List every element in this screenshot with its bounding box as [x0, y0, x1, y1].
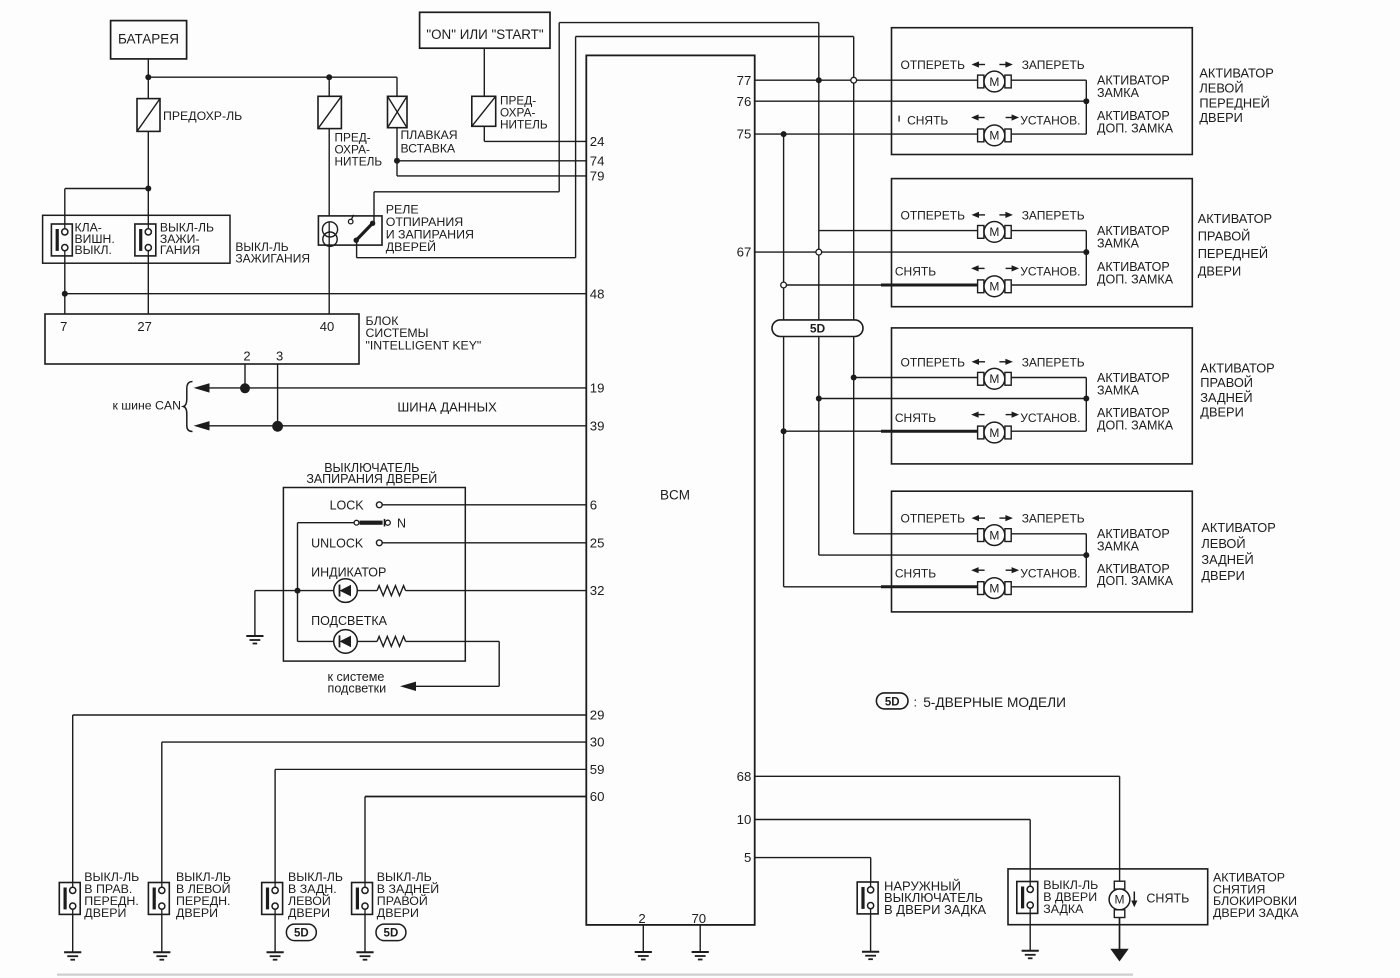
- svg-text:70: 70: [691, 911, 706, 926]
- svg-text:ЗАМКА: ЗАМКА: [1097, 540, 1140, 554]
- ground BCM pin70: [692, 951, 709, 953]
- svg-text:АКТИВАТОР: АКТИВАТОР: [1198, 211, 1272, 226]
- resistor indicator: [377, 586, 406, 596]
- svg-text:ДОП. ЗАМКА: ДОП. ЗАМКА: [1097, 574, 1174, 588]
- svg-text:ИНДИКАТОР: ИНДИКАТОР: [311, 565, 386, 579]
- wire motor1 right + return: [1011, 533, 1086, 535]
- ignition ON-START source: [420, 12, 550, 48]
- wire row pin30: [162, 741, 587, 743]
- svg-text:40: 40: [320, 319, 334, 334]
- ground right front door switch: [64, 951, 81, 953]
- svg-text:ДВЕРИ: ДВЕРИ: [1198, 264, 1241, 279]
- svg-text:67: 67: [737, 245, 752, 260]
- node box3 return tap: [816, 396, 822, 402]
- svg-text:В ДВЕРИ ЗАДКА: В ДВЕРИ ЗАДКА: [884, 902, 986, 917]
- wire box4 superlock row: [784, 586, 881, 588]
- node pin74 tap: [394, 158, 400, 164]
- fusible link: [388, 96, 408, 127]
- svg-text:СНЯТЬ: СНЯТЬ: [895, 265, 936, 279]
- svg-text:ДВЕРИ: ДВЕРИ: [176, 906, 218, 920]
- crossing hop box2 superlock: [781, 282, 787, 288]
- wire unlock feed vertical: [853, 37, 855, 534]
- svg-text:19: 19: [590, 381, 605, 396]
- svg-text:3: 3: [276, 349, 283, 364]
- svg-text:79: 79: [590, 169, 605, 184]
- svg-text:ЗАПЕРЕТЬ: ЗАПЕРЕТЬ: [1022, 355, 1085, 369]
- wire illumination row: [298, 640, 334, 642]
- wire box3 lock row: [854, 377, 978, 379]
- svg-text:6: 6: [590, 497, 597, 512]
- svg-text:68: 68: [737, 769, 752, 784]
- svg-text:ЗАПИРАНИЯ ДВЕРЕЙ: ЗАПИРАНИЯ ДВЕРЕЙ: [306, 471, 437, 486]
- svg-text:ЗАДНЕЙ: ЗАДНЕЙ: [1200, 390, 1252, 405]
- marker 5D rear left: [286, 924, 316, 941]
- wire box2 superlock row: [784, 284, 881, 286]
- wire motor1 right + return: [1011, 230, 1086, 232]
- wire relay common loop: [356, 241, 358, 258]
- wire indicator to pin32: [406, 590, 587, 592]
- ground rear right door switch: [356, 951, 373, 953]
- svg-text:30: 30: [590, 735, 605, 750]
- wire fuse F2 stems: [328, 77, 330, 96]
- arrow unlock direction: [1133, 892, 1135, 902]
- crossing hop 77: [851, 77, 857, 83]
- svg-text:ЗАЖИГАНИЯ: ЗАЖИГАНИЯ: [235, 252, 310, 266]
- svg-text:M: M: [1115, 893, 1125, 907]
- svg-text:ПОДСВЕТКА: ПОДСВЕТКА: [311, 614, 388, 628]
- wire pin2 stem: [244, 364, 246, 388]
- switch neutral element: [354, 520, 359, 525]
- ground left front door switch: [153, 951, 170, 953]
- svg-text:УСТАНОВ.: УСТАНОВ.: [1020, 114, 1080, 128]
- svg-text:UNLOCK: UNLOCK: [311, 536, 364, 550]
- svg-text:УСТАНОВ.: УСТАНОВ.: [1020, 566, 1080, 580]
- wire box4 lock row: [854, 533, 978, 535]
- svg-text:ГАНИЯ: ГАНИЯ: [160, 243, 200, 257]
- svg-text:5: 5: [744, 850, 751, 865]
- wire data bus row 19: [199, 387, 586, 389]
- wire battery stem: [147, 59, 149, 99]
- wire row pin77: [755, 79, 978, 81]
- wire pin3 stem: [277, 364, 279, 426]
- ground door lock switch: [246, 635, 263, 637]
- svg-text:77: 77: [737, 73, 752, 88]
- wire row pin68: [755, 775, 1120, 777]
- fuse F2: [318, 96, 341, 128]
- fuse F3: [472, 96, 496, 126]
- svg-text:АКТИВАТОР: АКТИВАТОР: [1200, 361, 1274, 376]
- resistor illumination: [377, 636, 406, 646]
- svg-text:5-ДВЕРНЫЕ МОДЕЛИ: 5-ДВЕРНЫЕ МОДЕЛИ: [923, 695, 1066, 710]
- wire fuse F3 to pin24: [483, 126, 485, 141]
- actuator right rear door: [892, 328, 1193, 464]
- wire row pin79: [397, 175, 586, 177]
- wire row pin10: [755, 819, 1030, 821]
- node 75 tap: [781, 131, 787, 137]
- wire row pin60: [365, 796, 586, 798]
- svg-text:M: M: [989, 528, 999, 542]
- wire to ground: [254, 591, 256, 636]
- switch key cancel: [51, 224, 72, 256]
- node fuse2 tap: [326, 74, 332, 80]
- svg-text:ДВЕРИ: ДВЕРИ: [288, 906, 330, 920]
- fuse F1: [137, 99, 160, 132]
- wire switch common: [298, 522, 355, 524]
- switch rear right door: [352, 883, 373, 915]
- svg-text:N: N: [397, 516, 406, 530]
- wire LOCK to pin6: [382, 504, 586, 506]
- wire coil to pin40: [328, 245, 330, 314]
- svg-text:25: 25: [590, 535, 605, 550]
- svg-text:ДВЕРИ: ДВЕРИ: [1201, 568, 1244, 583]
- node battery junction: [145, 74, 151, 80]
- svg-text:ПЕРЕДНЕЙ: ПЕРЕДНЕЙ: [1198, 246, 1268, 261]
- LED illumination: [334, 630, 358, 654]
- svg-text:подсветки: подсветки: [328, 682, 387, 696]
- svg-text:ДВЕРИ: ДВЕРИ: [1200, 404, 1243, 419]
- svg-text:ПЛАВКАЯ: ПЛАВКАЯ: [401, 128, 458, 142]
- scan shadow: [57, 973, 1133, 975]
- ground BCM pin2: [635, 951, 652, 953]
- CAN brace: [183, 382, 192, 432]
- svg-text:60: 60: [590, 789, 605, 804]
- node indicator branch: [295, 588, 301, 594]
- wire row pin29: [73, 714, 587, 716]
- ground outside switch: [862, 951, 879, 953]
- svg-text:ОТПЕРЕТЬ: ОТПЕРЕТЬ: [901, 355, 966, 369]
- motor super lock actuator: [978, 426, 984, 439]
- wire fuse F1 to switches: [147, 131, 149, 215]
- actuator right front door: [892, 179, 1193, 307]
- relay door lock-unlock: [318, 216, 382, 245]
- wire indicator row: [255, 590, 334, 592]
- svg-text:ВСТАВКА: ВСТАВКА: [401, 141, 457, 155]
- svg-text:УСТАНОВ.: УСТАНОВ.: [1020, 265, 1080, 279]
- svg-text:ЗАПЕРЕТЬ: ЗАПЕРЕТЬ: [1022, 512, 1085, 526]
- switch left front door: [148, 883, 169, 915]
- svg-text:ЛЕВОЙ: ЛЕВОЙ: [1199, 81, 1243, 96]
- wire row pin67: [755, 251, 1087, 253]
- ignition switch block: [43, 215, 230, 263]
- svg-text:48: 48: [590, 286, 605, 301]
- motor lock actuator: [978, 372, 984, 385]
- svg-text:"INTELLIGENT KEY": "INTELLIGENT KEY": [366, 338, 482, 352]
- block intelligent key system: [45, 314, 359, 364]
- node bus tap 2: [240, 383, 250, 393]
- motor super lock actuator: [978, 129, 984, 142]
- ground motor chassis: [1110, 949, 1128, 962]
- svg-text:5D: 5D: [294, 928, 309, 940]
- svg-text:АКТИВАТОР: АКТИВАТОР: [1201, 520, 1275, 535]
- svg-text:ДВЕРИ: ДВЕРИ: [84, 906, 126, 920]
- svg-text:"ON" ИЛИ "START": "ON" ИЛИ "START": [426, 27, 543, 42]
- wire row pin59: [275, 768, 586, 770]
- wire illumination out: [406, 640, 500, 642]
- node box3 superlock tap: [781, 428, 787, 434]
- svg-text:ВЫКЛ.: ВЫКЛ.: [75, 243, 112, 257]
- wire data bus row 39: [199, 425, 586, 427]
- node key-switch branch: [145, 186, 151, 192]
- actuator left front door: [892, 28, 1193, 155]
- svg-text:27: 27: [137, 319, 151, 334]
- wire motor1 right + return: [1011, 79, 1086, 81]
- motor lock actuator: [978, 75, 984, 88]
- wire row pin75: [755, 133, 978, 135]
- node pin48 branch: [62, 291, 68, 297]
- svg-text:BCM: BCM: [660, 487, 690, 502]
- switch ignition: [147, 215, 149, 224]
- svg-text:76: 76: [737, 94, 752, 109]
- svg-text:НИТЕЛЬ: НИТЕЛЬ: [335, 154, 383, 168]
- switch in back door: [1017, 882, 1038, 914]
- svg-text:7: 7: [60, 319, 67, 334]
- svg-text:ЗАМКА: ЗАМКА: [1097, 383, 1140, 397]
- svg-text:M: M: [989, 129, 999, 143]
- svg-text:СНЯТЬ: СНЯТЬ: [895, 411, 936, 425]
- svg-text:ДОП. ЗАМКА: ДОП. ЗАМКА: [1097, 272, 1174, 286]
- wire lock feed vertical: [818, 23, 820, 231]
- svg-text:ОТПЕРЕТЬ: ОТПЕРЕТЬ: [901, 512, 966, 526]
- switch back door outside: [857, 882, 878, 914]
- ground back door switch: [1022, 950, 1039, 952]
- svg-text:32: 32: [590, 583, 605, 598]
- motor lock actuator: [978, 529, 984, 542]
- battery: [111, 21, 187, 59]
- svg-text:39: 39: [590, 418, 605, 433]
- wire row pin76: [755, 100, 1087, 102]
- wire key switch to pin7: [64, 256, 66, 314]
- wire fusible-link drop: [396, 77, 398, 96]
- wire branch to key switch: [65, 188, 148, 190]
- svg-text:M: M: [989, 280, 999, 294]
- node box3 lock tap: [851, 375, 857, 381]
- svg-text:ДВЕРЕЙ: ДВЕРЕЙ: [386, 239, 436, 254]
- wire row pin74: [397, 160, 586, 162]
- switch rear left door: [262, 883, 283, 915]
- svg-text:СНЯТЬ: СНЯТЬ: [895, 566, 936, 580]
- svg-text:10: 10: [737, 812, 752, 827]
- svg-text:ЗАМКА: ЗАМКА: [1097, 86, 1140, 100]
- motor super lock actuator: [978, 582, 984, 595]
- marker 5D rear right: [376, 924, 406, 941]
- svg-text:БАТАРЕЯ: БАТАРЕЯ: [118, 32, 179, 47]
- wire row pin48: [65, 293, 587, 295]
- svg-text:ЗАМКА: ЗАМКА: [1097, 237, 1140, 251]
- door lock switch box: [283, 488, 465, 662]
- svg-text::: :: [914, 695, 918, 710]
- svg-text:УСТАНОВ.: УСТАНОВ.: [1020, 411, 1080, 425]
- svg-text:5D: 5D: [384, 928, 399, 940]
- svg-text:29: 29: [590, 708, 605, 723]
- svg-text:ЗАПЕРЕТЬ: ЗАПЕРЕТЬ: [1022, 58, 1085, 72]
- ground rear left door switch: [267, 951, 284, 953]
- marker 5D wires capsule: [772, 320, 863, 337]
- svg-text:2: 2: [243, 349, 250, 364]
- svg-text:ШИНА ДАННЫХ: ШИНА ДАННЫХ: [397, 399, 497, 414]
- svg-text:ЗАДКА: ЗАДКА: [1043, 902, 1084, 916]
- wire box3 return row: [819, 398, 1087, 400]
- svg-text:СНЯТЬ: СНЯТЬ: [1146, 892, 1189, 906]
- node relay-77 junction: [816, 77, 822, 83]
- wire super-lock feed vertical: [783, 134, 785, 587]
- svg-text:2: 2: [638, 911, 645, 926]
- wire motor1 right + return: [1011, 377, 1086, 379]
- svg-text:ДВЕРИ ЗАДКА: ДВЕРИ ЗАДКА: [1213, 906, 1299, 920]
- svg-text:ДОП. ЗАМКА: ДОП. ЗАМКА: [1097, 122, 1174, 136]
- svg-text:ДВЕРИ: ДВЕРИ: [1199, 110, 1242, 125]
- wire box3 superlock row: [784, 430, 881, 432]
- svg-text:24: 24: [590, 134, 605, 149]
- wire ignition switch to pin27: [147, 256, 149, 314]
- svg-text:ДОП. ЗАМКА: ДОП. ЗАМКА: [1097, 419, 1174, 433]
- LED indicator: [334, 579, 358, 603]
- svg-text:LOCK: LOCK: [330, 499, 365, 513]
- svg-text:ЛЕВОЙ: ЛЕВОЙ: [1201, 536, 1245, 551]
- svg-text:M: M: [989, 372, 999, 386]
- wire fusible link to pin74/79: [396, 128, 398, 176]
- svg-text:5D: 5D: [885, 697, 900, 709]
- svg-text:75: 75: [737, 127, 752, 142]
- svg-text:СНЯТЬ: СНЯТЬ: [907, 114, 948, 128]
- switch right front door: [59, 883, 80, 915]
- svg-text:ПРАВОЙ: ПРАВОЙ: [1198, 229, 1251, 244]
- motor super lock actuator: [978, 280, 984, 293]
- wire motor to ground: [1119, 918, 1121, 950]
- marker 5D legend: [876, 693, 908, 709]
- svg-text:ПРАВОЙ: ПРАВОЙ: [1200, 375, 1253, 390]
- svg-text:ОТПЕРЕТЬ: ОТПЕРЕТЬ: [901, 208, 966, 222]
- svg-text:НИТЕЛЬ: НИТЕЛЬ: [500, 117, 548, 131]
- wire box2 lock row: [819, 230, 978, 232]
- svg-text:M: M: [989, 225, 999, 239]
- actuator back door unlock box: [1008, 869, 1208, 925]
- svg-text:ДВЕРИ: ДВЕРИ: [377, 906, 419, 920]
- svg-text:M: M: [989, 75, 999, 89]
- svg-text:ЗАДНЕЙ: ЗАДНЕЙ: [1201, 552, 1253, 567]
- BCM module: [586, 55, 754, 925]
- svg-text:59: 59: [590, 762, 605, 777]
- wire UNLOCK to pin25: [382, 542, 586, 544]
- svg-text:74: 74: [590, 153, 605, 168]
- wire box4 return row: [819, 554, 1087, 556]
- node bus tap 3: [272, 421, 283, 432]
- svg-text:к шине CAN: к шине CAN: [112, 398, 181, 412]
- actuator left rear door: [892, 491, 1193, 612]
- svg-text:5D: 5D: [810, 322, 826, 336]
- wire relay NO contact loop: [373, 192, 375, 223]
- wire row pin5: [755, 857, 871, 859]
- svg-text:M: M: [989, 581, 999, 595]
- motor back door unlock: [1114, 881, 1125, 889]
- svg-text:ОТПЕРЕТЬ: ОТПЕРЕТЬ: [901, 58, 966, 72]
- svg-text:M: M: [989, 426, 999, 440]
- motor lock actuator: [978, 226, 984, 239]
- svg-text:ЗАПЕРЕТЬ: ЗАПЕРЕТЬ: [1022, 208, 1085, 222]
- wire ON stem: [483, 48, 485, 96]
- svg-text:АКТИВАТОР: АКТИВАТОР: [1199, 66, 1273, 81]
- crossing hop 67: [816, 249, 822, 255]
- wire supply bus: [148, 76, 397, 78]
- svg-text:ПРЕДОХР-ЛЬ: ПРЕДОХР-ЛЬ: [163, 109, 242, 123]
- svg-text:ПЕРЕДНЕЙ: ПЕРЕДНЕЙ: [1199, 95, 1269, 110]
